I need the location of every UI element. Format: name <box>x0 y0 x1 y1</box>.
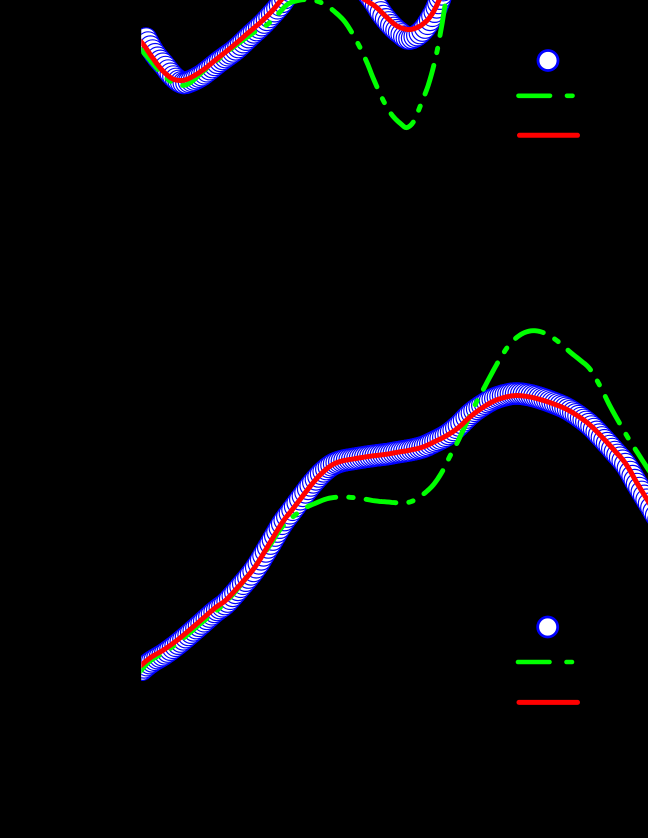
legend 2 marker circle <box>538 617 558 637</box>
top panel marker tube outline <box>146 0 445 83</box>
legend 1 green dash-dot sample <box>519 94 573 99</box>
legend 2 green dash-dot sample <box>518 660 572 665</box>
bottom panel data markers (white circles with blue edge) <box>131 383 648 681</box>
top panel data markers (white circles with blue edge) <box>135 0 454 94</box>
legend 1 marker circle <box>538 51 558 71</box>
top panel green dash-dot curve <box>138 0 448 128</box>
bottom panel marker tube outline <box>143 394 648 670</box>
legend 2 red line sample <box>519 700 578 705</box>
bottom panel red solid curve <box>137 396 648 670</box>
bottom panel green dash-dot curve <box>137 331 648 675</box>
legend 1 red line sample <box>520 133 578 138</box>
top panel red solid curve <box>138 0 441 81</box>
